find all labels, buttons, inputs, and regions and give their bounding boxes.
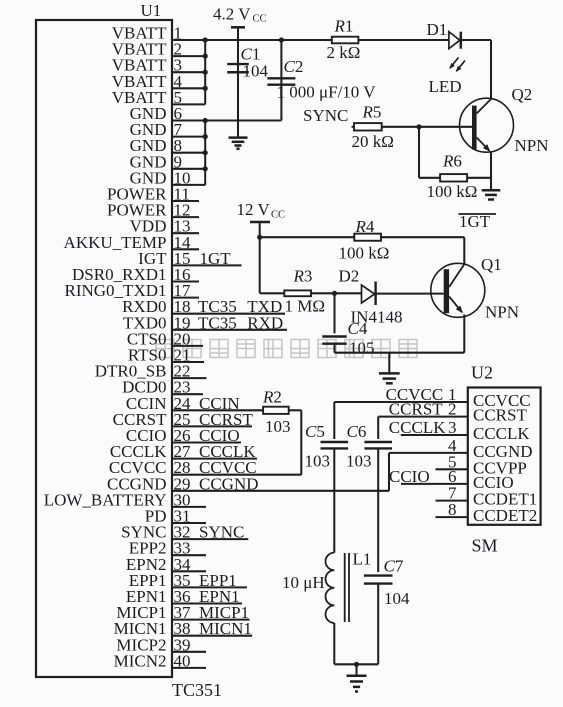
svg-text:RXD: RXD [247, 313, 283, 332]
svg-text:CC: CC [253, 14, 267, 25]
svg-text:NPN: NPN [515, 136, 549, 155]
svg-text:CCCLK: CCCLK [389, 418, 446, 437]
svg-text:103: 103 [346, 452, 372, 471]
svg-text:1 MΩ: 1 MΩ [285, 297, 326, 316]
svg-text:CC: CC [271, 210, 285, 221]
svg-text:2: 2 [448, 400, 457, 419]
svg-text:CCGND: CCGND [199, 474, 259, 493]
svg-text:C5: C5 [305, 422, 325, 441]
svg-text:R3: R3 [293, 267, 313, 286]
svg-text:104: 104 [243, 62, 269, 81]
svg-text:R6: R6 [442, 152, 462, 171]
svg-text:CCDET2: CCDET2 [473, 506, 537, 525]
svg-text:NPN: NPN [485, 303, 519, 322]
svg-text:8: 8 [448, 500, 457, 519]
svg-text:R4: R4 [355, 217, 375, 236]
svg-text:3: 3 [448, 418, 457, 437]
svg-text:R1: R1 [334, 17, 354, 36]
svg-text:CCIO: CCIO [389, 467, 430, 486]
svg-text:SYNC: SYNC [199, 523, 244, 542]
svg-text:C4: C4 [348, 319, 368, 338]
svg-text:1GT: 1GT [200, 249, 232, 268]
svg-text:CCRST: CCRST [389, 400, 443, 419]
svg-text:TC351: TC351 [172, 680, 222, 700]
svg-text:CCRST: CCRST [473, 406, 527, 425]
svg-text:12 V: 12 V [237, 200, 271, 219]
svg-text:103: 103 [305, 452, 331, 471]
svg-text:MICN2: MICN2 [114, 651, 167, 670]
svg-text:1 000 μF/10 V: 1 000 μF/10 V [277, 83, 377, 102]
svg-text:U2: U2 [471, 363, 493, 383]
svg-text:Q2: Q2 [512, 85, 533, 104]
svg-text:100 kΩ: 100 kΩ [339, 244, 390, 263]
svg-text:20 kΩ: 20 kΩ [352, 132, 394, 151]
svg-text:TC35: TC35 [198, 313, 237, 332]
svg-text:40: 40 [174, 651, 191, 670]
svg-text:LED: LED [429, 77, 462, 96]
svg-text:104: 104 [384, 589, 410, 608]
svg-text:U1: U1 [141, 1, 162, 20]
svg-text:Q1: Q1 [481, 255, 502, 274]
svg-text:C6: C6 [347, 422, 367, 441]
svg-text:D1: D1 [427, 20, 448, 39]
svg-text:C2: C2 [284, 57, 304, 76]
svg-text:1GT: 1GT [459, 212, 491, 231]
svg-text:D2: D2 [339, 267, 360, 286]
svg-text:R5: R5 [362, 103, 382, 122]
svg-text:C7: C7 [384, 557, 404, 576]
svg-text:MICN1: MICN1 [199, 619, 252, 638]
svg-text:10 μH: 10 μH [282, 573, 325, 592]
svg-text:CCCLK: CCCLK [473, 424, 530, 443]
svg-text:2 kΩ: 2 kΩ [327, 43, 361, 62]
svg-text:SYNC: SYNC [303, 106, 348, 125]
svg-text:103: 103 [265, 417, 291, 436]
svg-text:R2: R2 [262, 388, 282, 407]
svg-text:105: 105 [349, 339, 375, 358]
svg-text:4.2 V: 4.2 V [213, 5, 251, 24]
svg-text:L1: L1 [353, 550, 372, 569]
svg-text:SM: SM [472, 536, 498, 556]
svg-text:100 kΩ: 100 kΩ [427, 182, 478, 201]
